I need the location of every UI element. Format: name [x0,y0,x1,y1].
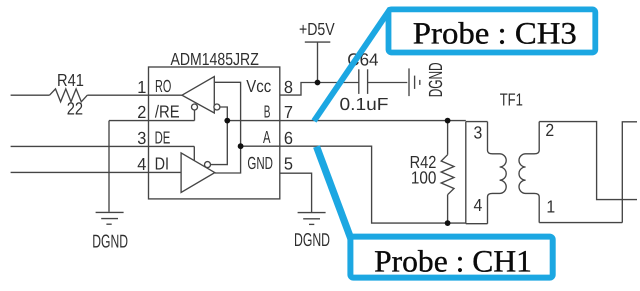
svg-text:B: B [264,101,271,121]
svg-text:4: 4 [474,195,483,215]
wire secondary pin1 out [539,222,622,224]
wire B net internal [211,107,228,165]
svg-text:1: 1 [137,77,146,97]
capacitor C64 [359,69,368,94]
svg-text:RO: RO [155,76,171,96]
ground DGND rotated [409,68,420,96]
svg-text:2: 2 [137,102,146,122]
svg-text:A: A [263,127,271,147]
node junction B internal [224,118,230,124]
svg-text:/RE: /RE [155,101,180,121]
transformer TF1 primary outline [466,122,488,224]
svg-text:DGND: DGND [92,231,128,252]
callout pointer CH3 [314,9,391,122]
svg-text:Probe : CH1: Probe : CH1 [374,243,532,278]
wire /RE enable stub [194,110,196,121]
svg-text:ADM1485JRZ: ADM1485JRZ [171,49,260,69]
wire secondary pin2 out [539,122,637,200]
receiver inverting input bubble [214,104,220,110]
wire RO left [11,94,50,96]
callout box CH3 [389,9,596,52]
svg-text:R41: R41 [57,70,84,90]
wire RO to IC pin1 and receiver apex [87,94,182,96]
svg-text:DGND: DGND [426,62,447,97]
wire C64 to ground [368,82,408,84]
wire DE enable stub [193,146,195,161]
svg-text:2: 2 [545,120,554,140]
svg-text:+D5V: +D5V [299,19,335,39]
svg-text:GND: GND [247,153,273,173]
svg-text:3: 3 [474,123,483,143]
wire B pin7 [227,120,465,122]
node junction +D5V/Vcc [315,80,321,86]
transformer TF1 secondary winding [519,122,539,223]
receiver enable bubble [192,104,198,110]
svg-text:3: 3 [137,128,146,148]
svg-text:TF1: TF1 [500,90,523,110]
ground DGND middle [298,213,326,225]
wire right connector [622,122,637,223]
node junction R42 bottom [445,220,451,226]
svg-text:5: 5 [284,154,293,174]
svg-text:7: 7 [284,102,293,122]
driver inverted output bubble [205,162,211,168]
wire Vcc pin8 [280,83,359,96]
callout pointer CH1 [317,147,352,240]
power +D5V symbol [305,42,331,82]
wire GND pin5 [280,173,312,212]
wire R42 bottom [447,195,449,223]
wire A pin6 external [280,146,466,223]
resistor R42 [441,155,454,195]
node junction A internal [238,143,244,149]
svg-text:DI: DI [155,154,169,174]
svg-text:Vcc: Vcc [246,76,271,96]
wire A pin6 internal [241,145,280,147]
svg-text:DE: DE [155,127,171,147]
transformer TF1 primary winding [488,122,507,224]
wire to left ground [108,121,110,212]
svg-text:1: 1 [546,196,555,216]
svg-text:0.1uF: 0.1uF [340,94,389,114]
wire R42 top [447,121,449,155]
wire receiver input to A net [214,82,240,173]
wire DE pin3 [11,145,195,147]
IC body ADM1485JRZ [149,67,280,199]
svg-text:6: 6 [284,128,293,148]
op-amp U2 driver triangle [181,153,215,193]
svg-text:4: 4 [137,154,146,174]
callout box CH1 [350,237,552,278]
svg-text:8: 8 [284,77,293,97]
resistor R41 [50,89,88,102]
wire /RE pin2 [109,120,195,122]
svg-text:22: 22 [67,99,83,119]
op-amp U1 receiver triangle [182,77,214,114]
svg-text:DGND: DGND [294,229,330,250]
node junction R42 top [445,118,451,124]
svg-text:100: 100 [411,168,437,188]
ground DGND left [96,212,124,224]
wire DI pin4 [11,171,182,173]
svg-text:Probe : CH3: Probe : CH3 [413,15,577,50]
